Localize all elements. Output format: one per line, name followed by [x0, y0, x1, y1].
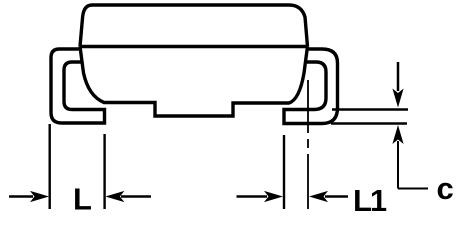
- svg-text:L: L: [73, 182, 92, 217]
- dimension arrow c down: [392, 62, 403, 108]
- svg-text:L1: L1: [353, 183, 387, 217]
- dimension arrow L right: [105, 191, 151, 202]
- dimension line c upper: [332, 108, 408, 110]
- package body lower outline: [80, 47, 308, 117]
- right lead (J-bend): [284, 49, 338, 124]
- dimension arrow L left: [9, 191, 49, 202]
- svg-text:c: c: [437, 171, 454, 206]
- left lead (J-bend): [51, 49, 105, 123]
- dimension arrow c up with leader: [392, 125, 428, 189]
- dimension extension center line L1 (dash-dot): [307, 80, 309, 209]
- dimension arrow L1 left: [237, 191, 284, 202]
- dimension extension line L left: [49, 124, 51, 209]
- package body upper outline: [80, 5, 308, 47]
- dimension arrow L1 right: [309, 191, 348, 202]
- package body parting line: [80, 45, 308, 49]
- dimension line c lower: [331, 122, 407, 124]
- dimension extension line L1 solid: [283, 135, 285, 209]
- dimension extension line L right: [103, 134, 105, 209]
